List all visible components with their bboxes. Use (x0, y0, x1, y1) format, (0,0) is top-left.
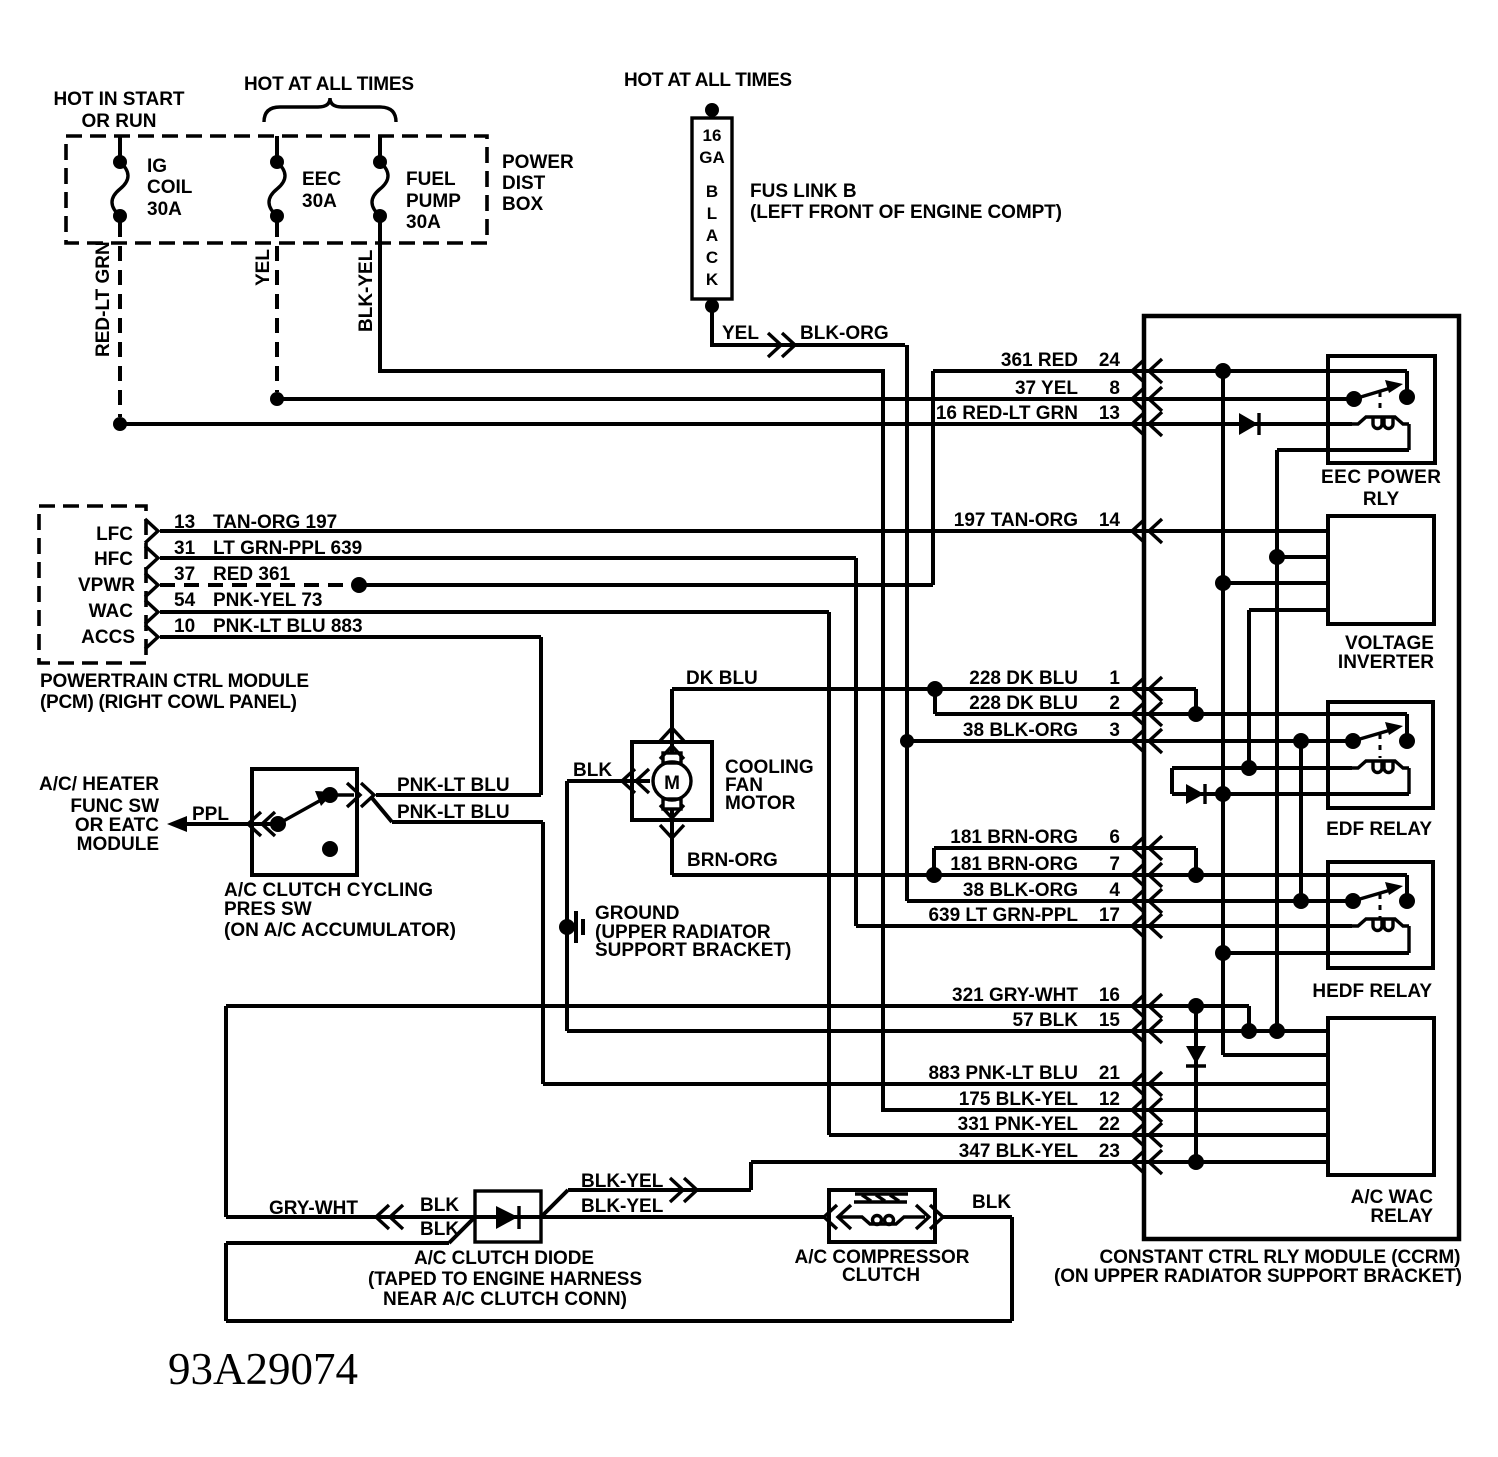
HEDF relay switch (1345, 893, 1361, 909)
svg-text:INVERTER: INVERTER (1338, 652, 1434, 673)
svg-text:PNK-LT BLU: PNK-LT BLU (397, 775, 510, 796)
svg-text:DIST: DIST (502, 173, 546, 194)
svg-text:RELAY: RELAY (1370, 1206, 1433, 1227)
svg-text:A: A (706, 226, 718, 245)
EEC relay coil (1352, 417, 1409, 450)
svg-text:21: 21 (1099, 1063, 1121, 1084)
svg-text:MOTOR: MOTOR (725, 793, 796, 814)
pin 16 connector 321 GRY-WHT (1132, 994, 1162, 1018)
connector DK BLU at motor (660, 728, 684, 759)
svg-text:181 BRN-ORG: 181 BRN-ORG (950, 854, 1078, 875)
svg-text:24: 24 (1099, 350, 1121, 371)
EDF relay K2 (1328, 702, 1433, 808)
pin 23 connector 347 BLK-YEL (1132, 1150, 1162, 1174)
node pin23 diode bus (1188, 1154, 1204, 1170)
svg-text:PNK-YEL 73: PNK-YEL 73 (213, 590, 322, 611)
svg-text:PUMP: PUMP (406, 191, 461, 212)
wire pin3 dot to HEDF (1299, 741, 1303, 901)
svg-text:OR EATC: OR EATC (75, 815, 159, 836)
HEDF relay K3 (1328, 862, 1433, 968)
pin 22 connector 331 PNK-YEL (1132, 1123, 1162, 1147)
connector at switch output (347, 783, 374, 807)
svg-text:TAN-ORG 197: TAN-ORG 197 (213, 512, 337, 533)
svg-text:PNK-LT BLU: PNK-LT BLU (397, 802, 510, 823)
diode D3 flyback EDF (1186, 784, 1204, 804)
wire BLK return loop (226, 1217, 1012, 1321)
pin 13 connector 16 RED-LT GRN (1132, 412, 1162, 436)
diode D2 on pin 13 wire (1239, 413, 1258, 435)
svg-text:YEL: YEL (722, 323, 759, 344)
svg-text:228 DK BLU: 228 DK BLU (969, 693, 1078, 714)
svg-text:BLK: BLK (972, 1192, 1011, 1213)
HEDF relay coil (1352, 919, 1409, 953)
svg-text:VPWR: VPWR (78, 575, 135, 596)
svg-text:38 BLK-ORG: 38 BLK-ORG (963, 880, 1078, 901)
fuse F2 EEC 30A (275, 136, 279, 156)
wire 13 TAN-ORG 197 to pin 14 (160, 529, 1328, 533)
svg-text:FUEL: FUEL (406, 169, 456, 190)
svg-text:(TAPED TO ENGINE HARNESS: (TAPED TO ENGINE HARNESS (368, 1269, 642, 1290)
wire PPL with arrow (167, 816, 187, 832)
wire BLK-YEL from diode to pin 23 (541, 1162, 1328, 1217)
svg-text:RED-LT GRN: RED-LT GRN (93, 241, 114, 357)
svg-text:YEL: YEL (253, 249, 274, 286)
A/C compressor clutch L1 (829, 1190, 935, 1242)
svg-text:NEAR A/C CLUTCH CONN): NEAR A/C CLUTCH CONN) (383, 1289, 627, 1310)
svg-text:30A: 30A (406, 212, 441, 233)
pin 3 connector 38 BLK-ORG (1132, 729, 1162, 753)
svg-text:38 BLK-ORG: 38 BLK-ORG (963, 720, 1078, 741)
node pin3 to EDF (1293, 733, 1309, 749)
svg-text:197 TAN-ORG: 197 TAN-ORG (954, 510, 1078, 531)
svg-text:54: 54 (174, 590, 196, 611)
svg-text:L: L (707, 204, 717, 223)
node RED-LT GRN junction (113, 417, 127, 431)
wire 31 LT GRN-PPL 639 to pin 17 (160, 558, 1352, 926)
wire YEL dashed drop (275, 222, 279, 392)
connector on GRY-WHT wire (376, 1205, 403, 1229)
svg-text:PRES SW: PRES SW (224, 899, 312, 920)
svg-text:CONSTANT CTRL RLY MODULE (CCRM: CONSTANT CTRL RLY MODULE (CCRM) (1100, 1247, 1461, 1268)
pin 6 connector 181 BRN-ORG (1132, 836, 1162, 860)
node RED 361 splice (351, 577, 367, 593)
svg-text:COIL: COIL (147, 177, 193, 198)
wire RED 361 to pin 24 (359, 371, 1407, 585)
pin 17 connector 639 LT GRN-PPL (1132, 914, 1162, 938)
svg-text:30A: 30A (147, 199, 182, 220)
svg-text:GA: GA (699, 148, 725, 167)
svg-text:2: 2 (1109, 693, 1120, 714)
node pin1/pin2 internal join (1188, 706, 1204, 722)
wire GRY-WHT loop pin 16 (226, 1006, 1249, 1217)
pin 14 connector 197 TAN-ORG (1132, 519, 1162, 543)
svg-text:(LEFT FRONT OF ENGINE COMPT): (LEFT FRONT OF ENGINE COMPT) (750, 202, 1062, 223)
svg-text:SUPPORT BRACKET): SUPPORT BRACKET) (595, 940, 791, 961)
svg-text:M: M (664, 773, 680, 794)
wire 54 PNK-YEL 73 to pin 22 (160, 612, 1328, 1135)
svg-text:12: 12 (1099, 1089, 1120, 1110)
PCM box (39, 506, 146, 663)
A/C clutch cycling pressure switch SW1 (252, 769, 357, 875)
svg-text:PNK-LT BLU 883: PNK-LT BLU 883 (213, 616, 363, 637)
EEC relay switch (1346, 391, 1362, 407)
wire 37 YEL to pin 8 (277, 397, 1354, 401)
pin 1 connector 228 DK BLU (1132, 677, 1162, 701)
svg-text:K: K (706, 270, 719, 289)
node pin16 diode bus (1188, 998, 1204, 1014)
wire BLK-ORG drop to pins 3/4 (905, 345, 909, 901)
svg-text:14: 14 (1099, 510, 1121, 531)
wire YEL / BLK-ORG from fus link (712, 306, 905, 345)
wire 37 RED 361 dashed from VPWR (160, 583, 352, 587)
motor symbol (663, 753, 681, 763)
svg-text:16: 16 (1099, 985, 1120, 1006)
diode bus D4 (1194, 1006, 1198, 1162)
svg-text:17: 17 (1099, 905, 1120, 926)
svg-text:DK BLU: DK BLU (686, 668, 758, 689)
fuse F3 FUEL PUMP 30A (378, 136, 382, 156)
wire BLK from diode to compressor clutch (541, 1215, 824, 1219)
svg-text:10: 10 (174, 616, 195, 637)
wire PNK-LT BLU upper (switch to ACCS) (376, 793, 541, 797)
svg-text:BLK-YEL: BLK-YEL (581, 1196, 664, 1217)
svg-text:B: B (706, 182, 718, 201)
svg-text:VOLTAGE: VOLTAGE (1345, 633, 1434, 654)
svg-text:FUNC SW: FUNC SW (70, 796, 159, 817)
pin 4 connector 38 BLK-ORG (1132, 889, 1162, 913)
svg-text:HFC: HFC (94, 549, 133, 570)
wire 38 BLK-ORG pin 4 (907, 899, 1353, 903)
svg-text:6: 6 (1109, 827, 1120, 848)
svg-text:30A: 30A (302, 191, 337, 212)
svg-text:228 DK BLU: 228 DK BLU (969, 668, 1078, 689)
node YEL junction (270, 392, 284, 406)
pin 15 connector 57 BLK (1132, 1019, 1162, 1043)
svg-text:347 BLK-YEL: 347 BLK-YEL (959, 1141, 1079, 1162)
fuse F1 IG COIL 30A (118, 136, 122, 156)
EEC power relay K1 (1328, 356, 1435, 463)
node bus A HEDF coil (1215, 945, 1231, 961)
inverter wires (1223, 557, 1328, 768)
connector on PPL wire (248, 812, 275, 836)
svg-text:181 BRN-ORG: 181 BRN-ORG (950, 827, 1078, 848)
svg-text:HEDF RELAY: HEDF RELAY (1312, 981, 1432, 1002)
cooling fan motor M1 (632, 742, 712, 820)
pin 12 connector 175 BLK-YEL (1132, 1098, 1162, 1122)
svg-text:CLUTCH: CLUTCH (842, 1265, 920, 1286)
svg-text:175 BLK-YEL: 175 BLK-YEL (959, 1089, 1079, 1110)
svg-text:A/C/ HEATER: A/C/ HEATER (39, 774, 159, 795)
svg-text:IG: IG (147, 156, 167, 177)
svg-text:(PCM) (RIGHT COWL PANEL): (PCM) (RIGHT COWL PANEL) (40, 692, 297, 713)
svg-text:ACCS: ACCS (81, 627, 135, 648)
node pin15 bus joins (1241, 1023, 1257, 1039)
EDF relay switch (1345, 733, 1361, 749)
wire EDF coil top from inverter (1172, 768, 1409, 794)
svg-text:RED 361: RED 361 (213, 564, 291, 585)
pin 24 connector 361 RED (1132, 359, 1162, 383)
svg-text:(ON A/C ACCUMULATOR): (ON A/C ACCUMULATOR) (224, 920, 456, 941)
bus A +12V vertical (1223, 371, 1328, 1055)
svg-text:EEC: EEC (302, 169, 341, 190)
svg-text:PPL: PPL (192, 804, 229, 825)
wire 10 PNK-LT BLU 883 from ACCS (160, 637, 541, 795)
svg-text:13: 13 (1099, 403, 1120, 424)
node bus A EDF coil (1215, 786, 1231, 802)
svg-text:1: 1 (1109, 668, 1120, 689)
svg-text:A/C CLUTCH DIODE: A/C CLUTCH DIODE (414, 1248, 594, 1269)
svg-text:BLK: BLK (420, 1195, 459, 1216)
svg-text:HOT AT ALL TIMES: HOT AT ALL TIMES (624, 70, 792, 91)
EDF relay coil (1352, 761, 1409, 794)
svg-text:16: 16 (703, 126, 722, 145)
node bus A at pin 24 (1215, 363, 1231, 379)
connector BRN-ORG at motor (660, 805, 684, 838)
svg-text:(ON UPPER RADIATOR SUPPORT BRA: (ON UPPER RADIATOR SUPPORT BRACKET) (1054, 1266, 1462, 1287)
svg-text:37 YEL: 37 YEL (1015, 378, 1078, 399)
svg-text:31: 31 (174, 538, 196, 559)
svg-text:23: 23 (1099, 1141, 1120, 1162)
svg-text:57 BLK: 57 BLK (1013, 1010, 1079, 1031)
node bus B inverter (1269, 549, 1285, 565)
brace (264, 98, 396, 122)
A/C WAC relay K4 (1328, 1018, 1434, 1175)
wire 228 DK BLU pin 2 (935, 689, 1407, 734)
svg-text:BLK: BLK (573, 760, 612, 781)
svg-text:C: C (706, 248, 718, 267)
svg-text:361 RED: 361 RED (1001, 350, 1078, 371)
svg-text:MODULE: MODULE (77, 834, 159, 855)
svg-text:22: 22 (1099, 1114, 1120, 1135)
svg-text:BLK-ORG: BLK-ORG (800, 323, 889, 344)
node DK BLU split to pin 2 (927, 681, 943, 697)
node bus A inverter (1215, 575, 1231, 591)
wire HEDF coil to bus A (1223, 951, 1409, 955)
wire EEC coil to bus B ground (1277, 450, 1409, 1031)
wire 38 BLK-ORG pin 3 (907, 739, 1353, 743)
svg-text:331 PNK-YEL: 331 PNK-YEL (958, 1114, 1079, 1135)
wire pin1 internal corner (1194, 689, 1198, 714)
connector on BLK-YEL wire (670, 1178, 697, 1202)
node BLK-ORG junction pin3 (900, 734, 914, 748)
pin 8 connector 37 YEL (1132, 387, 1162, 411)
connector BLK at motor (622, 769, 649, 793)
CCRM module box (1144, 316, 1459, 1239)
svg-text:37: 37 (174, 564, 195, 585)
pin 2 connector 228 DK BLU (1132, 702, 1162, 726)
svg-text:WAC: WAC (89, 601, 134, 622)
svg-text:15: 15 (1099, 1010, 1121, 1031)
svg-text:BLK-YEL: BLK-YEL (356, 249, 377, 332)
wire 16 RED-LT GRN to pin 13 (120, 422, 1352, 426)
pin 7 connector 181 BRN-ORG (1132, 863, 1162, 887)
svg-text:BOX: BOX (502, 194, 544, 215)
node pin6/pin7 internal join (1188, 867, 1204, 883)
svg-text:POWERTRAIN CTRL MODULE: POWERTRAIN CTRL MODULE (40, 671, 309, 692)
svg-text:OR RUN: OR RUN (82, 111, 157, 132)
node BRN-ORG split to pin 6 (926, 867, 942, 883)
svg-text:HOT AT ALL TIMES: HOT AT ALL TIMES (244, 74, 414, 95)
svg-text:LT GRN-PPL 639: LT GRN-PPL 639 (213, 538, 362, 559)
svg-text:RLY: RLY (1363, 489, 1400, 510)
wire DK BLU from motor to pin 1 (672, 689, 1196, 753)
svg-text:8: 8 (1109, 378, 1120, 399)
svg-text:4: 4 (1109, 880, 1120, 901)
svg-text:FUS LINK B: FUS LINK B (750, 181, 857, 202)
wire BLK from motor to ground and pin 15 (567, 781, 1328, 1031)
node pin4 to HEDF (1293, 893, 1309, 909)
svg-text:HOT IN START: HOT IN START (54, 89, 185, 110)
ground (upper radiator support bracket) (559, 919, 575, 935)
voltage inverter U1 (1328, 516, 1434, 624)
svg-text:BRN-ORG: BRN-ORG (687, 850, 778, 871)
wire BRN-ORG from motor to pin 7 (672, 809, 1407, 894)
svg-text:GRY-WHT: GRY-WHT (269, 1198, 358, 1219)
svg-text:93A29074: 93A29074 (168, 1344, 358, 1394)
wire PNK-LT BLU lower (switch to pin 21) (372, 798, 1328, 1084)
svg-text:GROUND: GROUND (595, 903, 679, 924)
svg-text:A/C WAC: A/C WAC (1351, 1187, 1434, 1208)
svg-text:16 RED-LT GRN: 16 RED-LT GRN (936, 403, 1078, 424)
svg-text:EEC POWER: EEC POWER (1321, 467, 1441, 488)
wire RED-LT GRN dashed drop (118, 222, 122, 417)
svg-text:EDF RELAY: EDF RELAY (1326, 819, 1432, 840)
svg-text:A/C CLUTCH CYCLING: A/C CLUTCH CYCLING (224, 880, 433, 901)
power dist box (66, 136, 487, 243)
svg-text:POWER: POWER (502, 152, 574, 173)
svg-text:639 LT GRN-PPL: 639 LT GRN-PPL (928, 905, 1078, 926)
node EDF coil top (1241, 760, 1257, 776)
wire BLK-YEL from fuel pump (380, 222, 1328, 1110)
svg-text:7: 7 (1109, 854, 1120, 875)
connector on BLK-ORG wire (768, 333, 795, 357)
PCM pin connectors (145, 519, 158, 649)
wire 181 BRN-ORG pin 6 (934, 848, 1196, 875)
svg-text:321 GRY-WHT: 321 GRY-WHT (952, 985, 1078, 1006)
svg-text:LFC: LFC (96, 524, 133, 545)
pin 21 connector 883 PNK-LT BLU (1132, 1072, 1162, 1096)
svg-text:3: 3 (1109, 720, 1120, 741)
A/C clutch diode D1 (475, 1191, 541, 1242)
svg-text:883 PNK-LT BLU: 883 PNK-LT BLU (928, 1063, 1078, 1084)
svg-text:13: 13 (174, 512, 195, 533)
svg-text:BLK-YEL: BLK-YEL (581, 1171, 664, 1192)
